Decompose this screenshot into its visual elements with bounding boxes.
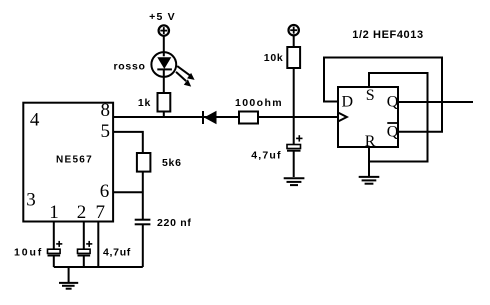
- wire pin 5 to 5k6: [113, 132, 143, 153]
- wire LED branch vertical: [163, 36, 165, 117]
- svg-text:Q: Q: [387, 94, 399, 111]
- capacitor C3 10uf polarized: [48, 241, 63, 267]
- wire bottom rail: [54, 266, 143, 268]
- svg-text:1k: 1k: [138, 97, 151, 109]
- IC U1 NE567 body: [23, 103, 113, 222]
- diode D2: [203, 111, 217, 125]
- wire S-R inner loop: [369, 73, 428, 162]
- svg-text:4,7uf: 4,7uf: [103, 247, 131, 259]
- svg-text:NE567: NE567: [56, 154, 93, 165]
- svg-text:5: 5: [101, 121, 111, 142]
- wire pin 1: [53, 222, 55, 250]
- IC U2 HEF4013 body: [338, 87, 398, 147]
- wire Q output: [398, 101, 473, 103]
- svg-text:6: 6: [100, 181, 110, 202]
- svg-text:5k6: 5k6: [162, 157, 182, 169]
- capacitor C1 4,7uf polarized at clock node: [287, 135, 303, 177]
- svg-text:10uf: 10uf: [14, 247, 43, 259]
- resistor R3 10k: [287, 47, 300, 68]
- pin Qbar label: [387, 123, 399, 140]
- svg-text:4: 4: [30, 110, 40, 131]
- svg-text:rosso: rosso: [114, 61, 146, 73]
- svg-text:10k: 10k: [264, 52, 284, 64]
- power supply symbol 10k branch: [289, 25, 299, 35]
- power +5V supply symbol: [159, 25, 169, 35]
- svg-text:4,7uf: 4,7uf: [251, 149, 282, 161]
- svg-text:1/2 HEF4013: 1/2 HEF4013: [352, 29, 423, 41]
- capacitor C4 4,7uf polarized pin2: [78, 241, 93, 267]
- clock input triangle: [338, 113, 347, 122]
- wire D feedback outer loop: [324, 58, 442, 132]
- wire main horizontal pin8 to clock: [112, 116, 338, 118]
- wire R to ground: [368, 147, 370, 177]
- ground NE567: [59, 267, 78, 289]
- svg-text:3: 3: [26, 190, 36, 211]
- svg-text:D: D: [342, 94, 354, 111]
- ground at clock node: [284, 178, 305, 185]
- svg-text:8: 8: [101, 100, 111, 121]
- wire pin 6: [113, 191, 143, 193]
- svg-text:7: 7: [95, 202, 105, 223]
- wire pin 7: [97, 222, 99, 268]
- ground flip-flop: [359, 177, 380, 184]
- svg-text:Q: Q: [387, 123, 399, 140]
- resistor R2 100ohm: [239, 112, 258, 124]
- svg-text:+5 V: +5 V: [149, 11, 176, 23]
- LED D1 rosso: [151, 52, 176, 77]
- svg-text:S: S: [366, 87, 375, 104]
- wire pin 2: [83, 222, 85, 250]
- LED light emission arrows: [176, 66, 195, 87]
- capacitor C2 220nf: [135, 220, 151, 267]
- wire 5k6 to 220nf: [142, 172, 144, 220]
- svg-text:1: 1: [49, 202, 59, 223]
- svg-text:R: R: [365, 133, 376, 150]
- resistor R4 5k6: [137, 153, 151, 172]
- svg-text:100ohm: 100ohm: [235, 97, 283, 109]
- resistor R1 1k: [158, 93, 171, 112]
- wire 10k branch vertical: [293, 35, 295, 144]
- svg-text:220 nf: 220 nf: [157, 217, 192, 229]
- svg-text:2: 2: [77, 202, 87, 223]
